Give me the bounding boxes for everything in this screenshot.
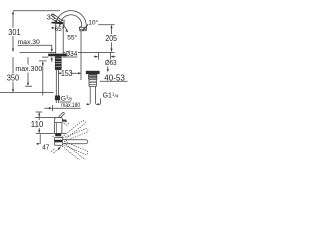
side view body (55, 122, 62, 133)
label diameter 34 underline (63, 56, 78, 58)
dimension max.300 bottom tick (25, 85, 32, 87)
dimension max.180 tick (52, 105, 54, 111)
svg-text:55°: 55° (67, 34, 77, 42)
threaded shank (55, 56, 62, 70)
svg-text:Ø63: Ø63 (105, 60, 117, 67)
dimension 47 line (37, 143, 59, 145)
svg-text:65°: 65° (55, 25, 65, 33)
label 55 degrees leader (63, 25, 67, 31)
deck top line (20, 51, 115, 53)
mounting hole edge right (109, 53, 111, 60)
rotation arrow (59, 147, 61, 150)
svg-text:301: 301 (8, 28, 21, 37)
side view shank below deck (55, 133, 61, 136)
label G 3/8 underline (60, 101, 71, 103)
dimension 301 top tick (13, 10, 60, 12)
label 33 extension ticks (60, 19, 65, 26)
label 10 degrees tick line (87, 24, 115, 26)
lever open position (51, 14, 63, 23)
deck bottom line left (42, 56, 48, 58)
side view lever cap (55, 117, 63, 122)
dimension 153 line (58, 72, 81, 74)
top view hub dark band (54, 140, 62, 143)
supply reference line (0, 91, 54, 93)
top view lever dashed +38 (62, 120, 86, 140)
dimension G 1 1/4 line (86, 98, 100, 104)
label diameter 63 leader (107, 66, 109, 69)
svg-text:47: 47 (42, 143, 49, 152)
svg-text:350: 350 (7, 74, 20, 83)
side view dimension 110 line (38, 113, 40, 133)
label 40-53 underline (100, 80, 128, 82)
lever closed (dark bar) (51, 22, 63, 25)
top view hub (55, 138, 63, 146)
waste thread (89, 79, 96, 86)
side view raised lever (59, 112, 65, 118)
mounting hole edge left (97, 53, 99, 60)
top view lever dashed +22 (63, 128, 89, 142)
rotation stub up-left (52, 135, 54, 137)
aerator outlet (79, 27, 86, 31)
dimension max.300 line (27, 57, 29, 83)
dimension 301 arrows (12, 11, 14, 52)
dimension 301 line (12, 12, 14, 52)
side view lever reference line (35, 117, 57, 119)
dimension 47 extension line (39, 134, 41, 144)
svg-text:Ø34: Ø34 (65, 49, 77, 58)
svg-text:G11/4: G11/4 (103, 92, 119, 100)
waste pipe (90, 86, 95, 104)
dimension max.30 arrows (51, 45, 53, 49)
side view dimension 110 top tick (36, 111, 43, 113)
dimension max.180 arrow (44, 107, 50, 109)
spout arc inner (60, 15, 82, 28)
supply tail nut G3/8 (55, 96, 60, 101)
svg-text:max.300: max.300 (15, 66, 42, 73)
escutcheon plate (48, 54, 66, 57)
mounting hole arrows (94, 56, 96, 58)
svg-text:205: 205 (105, 34, 117, 43)
dimension 350 line (12, 57, 14, 92)
waste flange (86, 71, 100, 74)
spout arc outer (56, 11, 87, 28)
faucet body (56, 24, 63, 54)
top view lever solid (63, 140, 88, 144)
side view deck line (36, 132, 66, 134)
dimension max.30 underline (18, 44, 53, 46)
label 65 degrees (52, 27, 54, 29)
waste body (88, 74, 97, 79)
label 10 degrees angle leader (83, 25, 88, 30)
rotation stub dashes (51, 149, 57, 154)
side view lever pointing right (62, 119, 67, 121)
svg-text:153: 153 (61, 69, 73, 78)
svg-text:110: 110 (31, 120, 44, 129)
label 33 leader arrow (54, 20, 57, 21)
dimension max.180 underline (53, 107, 81, 109)
top view lever dashed -22 (63, 141, 89, 155)
supply tail (56, 70, 58, 96)
dimension 205 line (111, 26, 113, 52)
dimension 153 extension line (80, 31, 82, 80)
top view lever dashed -38 (62, 143, 86, 163)
side view motion dashes (64, 121, 70, 126)
dimension 205 arrows (110, 25, 112, 52)
reference arrow and tick x42.8 (39, 60, 47, 62)
svg-text:10°: 10° (88, 19, 98, 27)
